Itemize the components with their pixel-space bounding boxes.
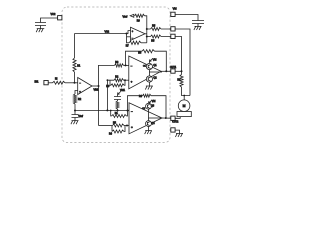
svg-text:R9: R9 <box>106 86 110 88</box>
wire R2 to Vref node <box>74 104 76 111</box>
svg-text:VM1: VM1 <box>120 89 126 92</box>
wire P2 down to OUT1 node <box>175 37 181 72</box>
svg-text:R1: R1 <box>115 113 119 115</box>
svg-text:IN1: IN1 <box>35 80 40 83</box>
wire IN1 to Ri <box>49 82 53 84</box>
wire Ri to node N1 <box>65 82 78 84</box>
capacitor C3 (chain) <box>117 100 119 102</box>
port IN1 <box>44 81 48 85</box>
wire A3 output to port OUT1 <box>161 70 171 72</box>
VM supply stub (A4 output stage) <box>149 100 152 103</box>
port PG (ground) <box>171 128 175 132</box>
svg-text:VM: VM <box>152 100 156 103</box>
ground (A3 stage) <box>145 86 153 90</box>
net stub VM1 arrow <box>117 95 119 97</box>
svg-text:R7: R7 <box>126 45 130 47</box>
node VM1 (A1 output) <box>98 85 100 87</box>
capacitor C1 (Vref bypass) <box>72 115 79 118</box>
wire R3 to node N2 <box>124 64 129 66</box>
resistor R4 (A4 feedback) <box>128 96 143 111</box>
resistor R9 (parallel loop under R2) <box>109 80 112 85</box>
wire output stage tap <box>149 71 162 73</box>
wire rail VM1 to R5 row <box>99 125 113 127</box>
svg-text:R1: R1 <box>77 65 81 68</box>
node chain bottom <box>117 110 119 112</box>
svg-text:M: M <box>183 104 186 108</box>
wire R1 to node N1 <box>74 72 76 83</box>
svg-text:Q3: Q3 <box>151 105 155 108</box>
transistor Q2 <box>146 76 152 82</box>
resistor R10 (chain) <box>116 101 119 109</box>
op-amp A1 <box>78 78 92 95</box>
svg-text:−: − <box>131 64 133 68</box>
node N1 (A1 inverting input) <box>74 82 76 84</box>
svg-text:R4: R4 <box>138 53 142 55</box>
resistor R6 (Vref to A2) <box>135 14 145 17</box>
node Rs top <box>181 70 183 72</box>
wire R2 to node N3 <box>124 79 129 81</box>
wire Vref line into A4 <box>127 110 129 112</box>
svg-text:R5: R5 <box>113 122 117 124</box>
wire A4 output to port OUT2 <box>162 117 171 119</box>
resistor R2 (A1 + to Vref) <box>73 94 76 104</box>
svg-text:VO2: VO2 <box>51 13 56 16</box>
wire motor bottom to port OUT2 <box>175 117 180 119</box>
op-amp A2 <box>131 27 146 40</box>
wire Q3-Q4 chain <box>148 109 150 121</box>
svg-text:VM: VM <box>153 58 157 61</box>
resistor R5 (A4 + input) <box>113 124 125 127</box>
motor M1 <box>178 100 190 112</box>
resistor R5 (lower, to port P2) <box>151 35 162 38</box>
svg-text:R2: R2 <box>115 76 119 78</box>
svg-text:R6: R6 <box>137 20 141 23</box>
op-amp A3 <box>129 56 161 89</box>
wire A1 output <box>92 85 99 87</box>
port OUT2 <box>171 116 175 120</box>
svg-text:Ri: Ri <box>55 78 58 81</box>
svg-text:Vref: Vref <box>78 114 83 118</box>
svg-text:R4: R4 <box>139 96 143 98</box>
capacitor C4 (VM bypass) <box>192 21 204 24</box>
wire VM to cap <box>175 15 198 21</box>
ground (VM cap) <box>194 26 202 30</box>
port VM <box>171 12 175 16</box>
wire N4 to A2 + input <box>127 31 131 34</box>
svg-text:Q1: Q1 <box>153 64 157 67</box>
port VO2 <box>58 16 62 20</box>
wire P1 to motor top rail <box>175 29 190 96</box>
wire N4 down to A2 - input and R7 <box>127 34 130 43</box>
transistor Q3 <box>146 103 152 109</box>
svg-text:C2: C2 <box>142 108 146 110</box>
svg-text:VM: VM <box>173 7 177 11</box>
wire output stage tap <box>149 117 163 119</box>
ground (PG) <box>175 133 183 137</box>
op-amp A4 <box>129 103 162 134</box>
node N3 (A3 non-inverting input) <box>124 79 126 81</box>
wire V32 vertical <box>74 34 76 59</box>
node N2 (A3 inverting input) <box>125 64 127 66</box>
wire Vref line <box>75 110 128 112</box>
node OUT2 (A4 output) <box>165 117 167 119</box>
svg-text:+: + <box>131 125 133 129</box>
wire Q2 to ground <box>148 82 150 86</box>
ground (VO2 cap) <box>36 29 44 33</box>
wire A2 output rail <box>145 16 147 43</box>
wire V32 horizontal <box>75 33 127 35</box>
wire A1 + input <box>75 91 78 95</box>
wire Vref node to cap <box>74 111 76 115</box>
resistor R4 (A3 feedback) <box>126 51 143 65</box>
resistor R4 (parallel loop below) <box>111 126 113 132</box>
ground (A4 stage) <box>145 131 152 135</box>
svg-text:R3: R3 <box>115 62 119 64</box>
wire Q1-Q2 chain <box>148 70 150 76</box>
wire Rs bottom to motor <box>182 87 191 100</box>
svg-text:Q4: Q4 <box>151 122 155 125</box>
IC boundary dashed box <box>62 7 170 143</box>
wire cap to ground <box>40 26 42 29</box>
transistor Q4 <box>146 121 152 127</box>
wire VO2 to capacitor <box>41 18 58 23</box>
svg-text:Q2: Q2 <box>153 77 157 80</box>
port P2 <box>171 34 175 38</box>
resistor R1 (loop under Vref line) <box>110 111 113 117</box>
svg-text:+: + <box>131 79 133 83</box>
wire rail VM1 <box>99 65 115 125</box>
port OUT1 <box>171 69 175 73</box>
svg-text:R5: R5 <box>151 40 155 43</box>
resistor R1 <box>73 58 76 72</box>
resistor Rs <box>181 71 183 74</box>
wire rail Vref-up <box>107 80 114 110</box>
port P1 <box>171 27 175 31</box>
resistor R5 (upper, to port P1) <box>151 28 162 31</box>
node Vref <box>74 110 76 112</box>
svg-text:R2: R2 <box>78 98 82 101</box>
svg-text:Vref: Vref <box>123 14 128 18</box>
wire cap to ground <box>74 118 76 121</box>
svg-text:V32: V32 <box>105 30 110 34</box>
wire OUT1 to Rs node <box>175 70 181 72</box>
capacitor C2 (VO2 bypass) <box>35 23 46 26</box>
resistor R2 (A3 + input) <box>114 79 124 82</box>
transistor Q1 <box>146 63 152 69</box>
wire PG to ground <box>175 130 179 133</box>
svg-text:R4: R4 <box>109 134 113 136</box>
node N4 (A2 input junction) <box>126 33 128 35</box>
node OUT1 (A3 output) <box>165 70 167 72</box>
resistor R7 (A2 feedback) <box>129 41 141 44</box>
svg-text:R5: R5 <box>152 25 156 28</box>
svg-text:OUT2: OUT2 <box>172 121 179 123</box>
resistor R3 <box>115 64 124 67</box>
svg-text:−: − <box>131 109 133 113</box>
wire Q4 to ground <box>148 127 150 131</box>
ground (Vref cap) <box>71 121 79 125</box>
node N5 (A4 non-inverting input) <box>126 125 128 127</box>
VM supply stub (A3 output stage) <box>148 62 150 64</box>
resistor Ri <box>53 81 66 84</box>
